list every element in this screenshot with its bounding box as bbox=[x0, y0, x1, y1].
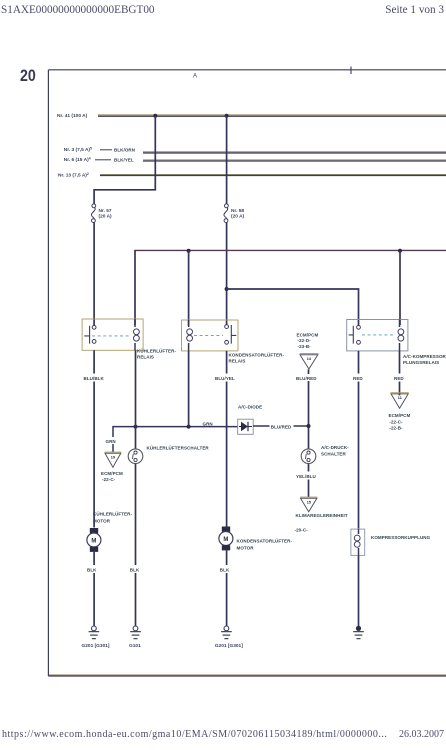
relay K1 Kuehlerluefter-Relais box bbox=[82, 319, 143, 350]
wire: relay K3 contact to compressor clutch bbox=[358, 351, 360, 529]
connector triangle ECM/PCM -22-C- bottom left bbox=[105, 452, 122, 467]
svg-text:A/C-DIODE: A/C-DIODE bbox=[238, 405, 262, 410]
node: junction to relay K3 coil bbox=[398, 249, 402, 253]
svg-text:26.03.2007: 26.03.2007 bbox=[399, 729, 444, 740]
fuse Nr.57 (20A) bbox=[91, 204, 95, 223]
wire: branch to relay K3 contact bbox=[227, 289, 359, 325]
wire: coil feed line y=250 bbox=[135, 250, 446, 252]
node: GRN junction at relay K1 coil column bbox=[134, 425, 138, 429]
svg-text:BLU/BLK: BLU/BLK bbox=[84, 376, 105, 381]
motor M1 Kuehlerluefter-Motor bbox=[87, 528, 101, 552]
svg-text:PLUNGSRELAIS: PLUNGSRELAIS bbox=[403, 360, 439, 365]
node: junction at branch to relay K3 bbox=[225, 287, 229, 291]
wire: drop to relay K1 coil bbox=[134, 250, 136, 325]
wire color label YEL/BLU bbox=[295, 472, 319, 480]
node: junction on Nr.41 at x=226.6 bbox=[225, 114, 229, 118]
svg-text:RELAIS: RELAIS bbox=[229, 359, 246, 364]
svg-text:Nr. 6 (15 A)4: Nr. 6 (15 A)4 bbox=[64, 156, 91, 163]
connector triangle Klimareglereinheit bbox=[300, 497, 317, 512]
wire: battery feed Nr.41 (100A) horizontal bbox=[98, 114, 446, 116]
wire: relay K3 coil to ECM triangle bbox=[399, 351, 401, 396]
wire: clutch to ground bbox=[358, 555, 360, 626]
wire color label BLU/RED bbox=[295, 374, 319, 381]
svg-text:BLU/RED: BLU/RED bbox=[296, 376, 317, 381]
svg-text:KOMPRESSORKUPPLUNG: KOMPRESSORKUPPLUNG bbox=[371, 535, 431, 540]
wire: relay K1 coil down through GRN to fan switch bbox=[135, 350, 137, 449]
svg-text:A/C-KOMPRESSORK: A/C-KOMPRESSORK bbox=[403, 354, 446, 359]
svg-text:Nr. 57: Nr. 57 bbox=[99, 208, 112, 214]
wire: relay K2 coil down to GRN net bbox=[188, 351, 190, 427]
svg-text:GRN: GRN bbox=[203, 422, 213, 427]
svg-text:(20 A): (20 A) bbox=[99, 214, 113, 220]
svg-text:A: A bbox=[193, 74, 197, 80]
svg-text:GRN: GRN bbox=[106, 439, 116, 444]
svg-text:Nr. 41 (100 A): Nr. 41 (100 A) bbox=[57, 113, 88, 119]
wire: GRN net from ECM branch across coils to diode bbox=[113, 427, 238, 452]
svg-text:-23-B-: -23-B- bbox=[298, 344, 312, 349]
connector triangle ECM/PCM top bbox=[300, 354, 319, 369]
svg-text:20: 20 bbox=[20, 66, 36, 85]
node: junction to relay K2 coil bbox=[187, 249, 191, 253]
relay K3 coil bbox=[398, 320, 404, 351]
wire color label RED bbox=[352, 374, 365, 382]
svg-text:MOTOR: MOTOR bbox=[93, 519, 111, 524]
svg-text:https://www.ecom.honda-eu.com/: https://www.ecom.honda-eu.com/gma10/EMA/… bbox=[2, 729, 387, 740]
relay K1 contact bbox=[84, 325, 96, 343]
svg-text:MOTOR: MOTOR bbox=[237, 546, 255, 551]
svg-text:Nr. 13 (7,5 A)2: Nr. 13 (7,5 A)2 bbox=[58, 172, 89, 179]
wire: BLK/YEL feed bbox=[143, 159, 446, 161]
wire color label GRN (vertical branch) bbox=[105, 437, 118, 444]
ground G201 (motor M2) bbox=[221, 626, 232, 639]
svg-text:(20 A): (20 A) bbox=[231, 214, 245, 220]
relay K2 dashed link bbox=[194, 334, 223, 336]
svg-text:RED: RED bbox=[394, 376, 404, 381]
A/C diode D1 bbox=[238, 419, 254, 434]
wire BLU/RED from ECM to pressure switch bbox=[308, 370, 310, 449]
svg-text:BLK/YEL: BLK/YEL bbox=[114, 158, 134, 163]
wire: drop to relay K2 coil bbox=[188, 251, 190, 326]
fan switch S1 Kuehlerluefterschalter bbox=[128, 449, 143, 464]
wire color label BLK bbox=[86, 565, 99, 573]
relay K1 coil bbox=[134, 319, 140, 350]
svg-text:YEL/BLU: YEL/BLU bbox=[296, 474, 316, 479]
svg-text:-22-C-: -22-C- bbox=[389, 419, 403, 424]
wire: motor M2 to ground bbox=[226, 551, 228, 627]
ground (compressor clutch, filled) bbox=[353, 626, 364, 639]
svg-text:ECM/PCM: ECM/PCM bbox=[101, 471, 123, 476]
wire: drop from Nr.41 node to jog bbox=[94, 116, 155, 204]
svg-text:RED: RED bbox=[353, 376, 363, 381]
svg-text:G101: G101 bbox=[129, 643, 141, 649]
ground G201 (motor M1) bbox=[89, 626, 100, 639]
svg-text:M: M bbox=[223, 537, 228, 543]
relay K2 Kondensatorluefter-Relais box bbox=[182, 320, 239, 351]
wire color label BLU/YEL bbox=[214, 374, 238, 382]
wire: drop from Nr.41 node to fuse 58 bbox=[226, 116, 228, 204]
pressure switch S2 A/C-Druckschalter bbox=[301, 449, 316, 464]
svg-text:BLK/ORN: BLK/ORN bbox=[114, 148, 135, 153]
wire: relay K1 contact to motor M1 bbox=[93, 350, 95, 527]
svg-text:15: 15 bbox=[307, 500, 311, 504]
relay K2 contact bbox=[225, 325, 237, 344]
wire: drop to relay K3 coil bbox=[399, 251, 401, 325]
svg-text:11: 11 bbox=[398, 396, 402, 400]
svg-text:-20-C-: -20-C- bbox=[295, 528, 309, 533]
svg-text:BLK: BLK bbox=[130, 568, 140, 573]
svg-text:-22-D-: -22-D- bbox=[298, 338, 312, 343]
wire: fuse 58 down to relay K2 contact pin bbox=[226, 222, 228, 325]
svg-text:Nr. 58: Nr. 58 bbox=[231, 208, 244, 214]
node: GRN junction at relay K2 coil column bbox=[187, 425, 191, 429]
svg-text:ECM/PCM: ECM/PCM bbox=[297, 332, 319, 337]
svg-text:KÜHLERLÜFTER-: KÜHLERLÜFTER- bbox=[137, 348, 176, 354]
connector triangle ECM/PCM right bbox=[391, 393, 409, 409]
wire: relay K2 contact to motor M2 bbox=[226, 351, 228, 528]
relay K1 dashed link bbox=[92, 335, 129, 337]
svg-text:BLU/YEL: BLU/YEL bbox=[215, 376, 235, 381]
svg-text:Seite 1 von 3: Seite 1 von 3 bbox=[385, 4, 444, 16]
svg-text:14: 14 bbox=[307, 357, 312, 361]
svg-text:KLIMAREGLEREINHEIT: KLIMAREGLEREINHEIT bbox=[296, 513, 348, 518]
svg-text:-22-B-: -22-B- bbox=[389, 426, 403, 431]
wire color label RED bbox=[393, 374, 406, 382]
ground G101 (fan switch) bbox=[130, 626, 141, 639]
svg-text:19: 19 bbox=[111, 455, 115, 459]
wire: fan switch to ground G101 bbox=[135, 464, 137, 627]
svg-text:ECM/PCM: ECM/PCM bbox=[389, 413, 411, 418]
svg-text:A/C-DRUCK-: A/C-DRUCK- bbox=[321, 445, 349, 450]
relay K3 A/C-Kompressorkupplungsrelais box bbox=[347, 320, 408, 351]
wire: Nr.13 feed bbox=[100, 174, 446, 176]
wire: fuse 57 to relay K1 pin bbox=[93, 222, 95, 325]
svg-text:BLK: BLK bbox=[87, 568, 97, 573]
svg-text:S1AXE00000000000000EBGT00: S1AXE00000000000000EBGT00 bbox=[1, 4, 155, 16]
wire color label BLU/RED after diode bbox=[270, 422, 294, 430]
wire color label BLU/BLK bbox=[83, 374, 107, 382]
svg-text:G201 [G301]: G201 [G301] bbox=[215, 643, 243, 649]
compressor clutch L1 Kompressorkupplung bbox=[351, 529, 365, 555]
wire color label BLK bbox=[219, 565, 232, 573]
fuse Nr.58 (20A) bbox=[224, 204, 228, 223]
svg-text:BLK: BLK bbox=[220, 568, 230, 573]
svg-text:G201 [G301]: G201 [G301] bbox=[82, 643, 110, 649]
relay K2 coil bbox=[187, 320, 193, 351]
svg-text:KONDENSATORLÜFTER-: KONDENSATORLÜFTER- bbox=[237, 538, 293, 544]
node: junction diode line and BLU/RED column bbox=[307, 424, 311, 428]
wire: pressure switch to Klimaregler triangle bbox=[308, 464, 310, 498]
svg-text:-22-C-: -22-C- bbox=[102, 477, 116, 482]
wire color label BLK bbox=[129, 565, 142, 573]
svg-text:BLU/RED: BLU/RED bbox=[271, 424, 292, 429]
relay K3 dashed link bbox=[362, 334, 395, 336]
svg-text:KONDENSATORLÜFTER-: KONDENSATORLÜFTER- bbox=[229, 352, 285, 358]
svg-text:Nr. 3 (7,5 A)5: Nr. 3 (7,5 A)5 bbox=[64, 146, 92, 153]
svg-text:KÜHLERLÜFTERSCHALTER: KÜHLERLÜFTERSCHALTER bbox=[147, 445, 210, 451]
svg-text:M: M bbox=[91, 539, 96, 545]
svg-text:KÜHLERLÜFTER-: KÜHLERLÜFTER- bbox=[93, 511, 132, 517]
relay K3 contact bbox=[349, 325, 361, 344]
node: junction on Nr.41 at x=155 bbox=[153, 114, 157, 118]
svg-text:RELAIS: RELAIS bbox=[137, 355, 154, 360]
motor M2 Kondensatorluefter-Motor bbox=[219, 527, 233, 551]
wire: BLK/ORN feed bbox=[143, 151, 446, 153]
svg-text:SCHALTER: SCHALTER bbox=[321, 452, 346, 457]
wire: diode output to BLU/RED column bbox=[253, 425, 308, 427]
wire: motor M1 to ground bbox=[93, 552, 95, 626]
